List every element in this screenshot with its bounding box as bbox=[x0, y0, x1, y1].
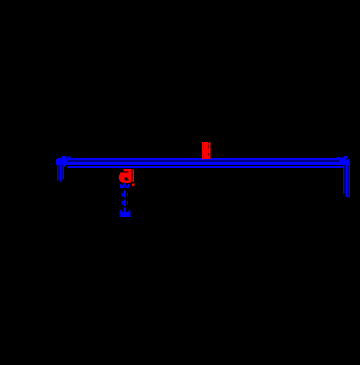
dimension arrow: side ticks of shaft bbox=[122, 193, 127, 205]
label d: bowl counter (black hole) bbox=[125, 177, 128, 180]
node: right corner blob bbox=[337, 156, 350, 165]
node: left corner blob bbox=[56, 156, 70, 164]
wire: bottom horizontal stroke bbox=[67, 166, 344, 168]
component: red block marker on wire bbox=[202, 142, 210, 159]
label d (red) bbox=[119, 169, 135, 186]
dimension arrow: down arrowhead bbox=[120, 210, 131, 215]
dimension arrow: bottom tick bbox=[120, 214, 131, 216]
wire: top horizontal stroke bbox=[61, 158, 345, 160]
dimension arrow: dashed shaft bbox=[124, 191, 126, 210]
wire: left leg strokes bbox=[57, 160, 59, 181]
wire: middle horizontal stroke bbox=[56, 161, 350, 164]
wire: right leg strokes bbox=[343, 160, 345, 194]
dimension arrow: notch under arrowhead tip bbox=[125, 186, 127, 188]
dimension arrow: up arrowhead bbox=[120, 183, 130, 189]
